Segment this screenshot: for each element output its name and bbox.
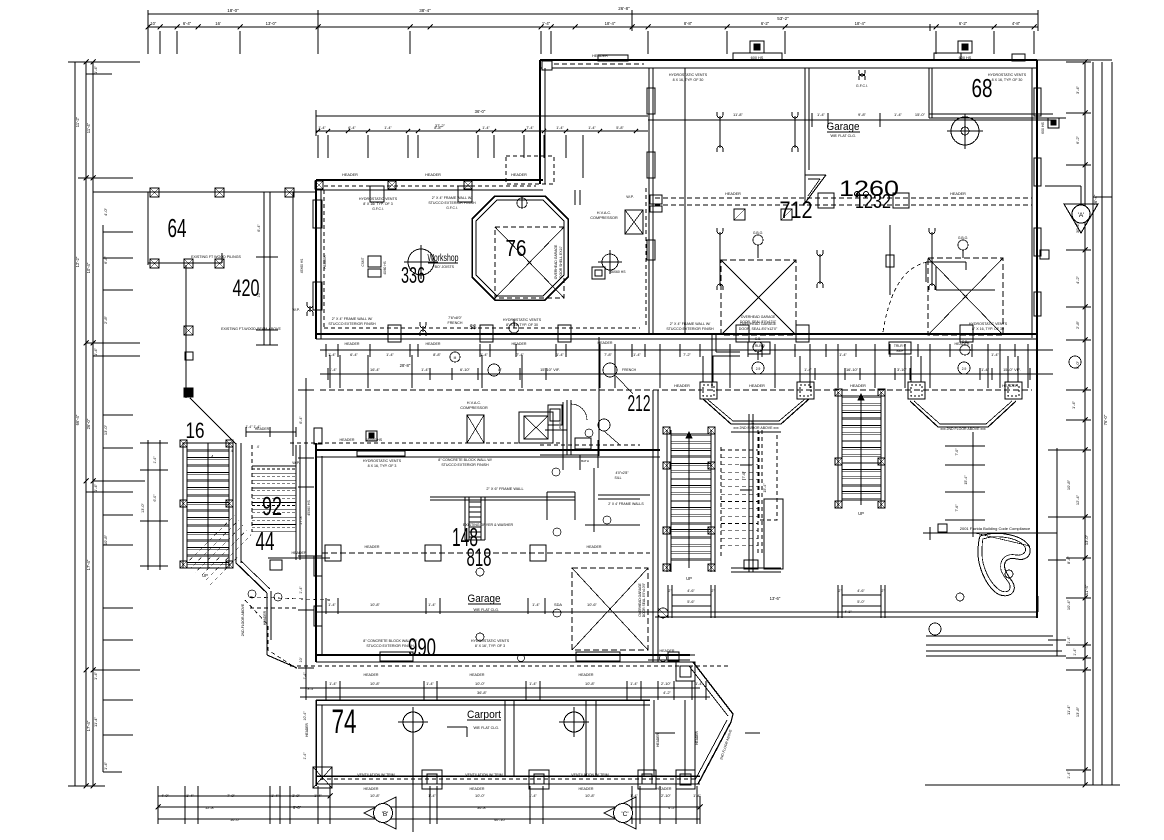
svg-text:6'-10": 6'-10" <box>460 367 471 372</box>
dimension line right vertical group <box>1084 62 1086 785</box>
bottom left end ticks <box>156 805 161 810</box>
center stair A treads <box>671 433 711 435</box>
svg-text:TRLR 9': TRLR 9' <box>753 344 766 348</box>
header dashed line corridor <box>320 389 1032 391</box>
svg-text:1'-4": 1'-4" <box>93 347 98 356</box>
dashed bay outline lower left <box>245 600 296 668</box>
svg-text:6'-4": 6'-4" <box>299 416 303 424</box>
svg-text:DOOR SHELL 8'X10': DOOR SHELL 8'X10' <box>559 246 563 278</box>
corridor circles <box>450 352 460 362</box>
svg-text:G.B.: G.B. <box>962 340 968 344</box>
svg-text:12'-2": 12'-2" <box>75 256 80 267</box>
corridor dim row 2 <box>320 373 1053 375</box>
svg-text:HEADER: HEADER <box>725 192 741 196</box>
octagon2 stem and dims <box>972 432 974 537</box>
carport column centerline <box>412 732 414 832</box>
svg-text:DOOR, SEAL 8'0"x12'0": DOOR, SEAL 8'0"x12'0" <box>740 320 777 324</box>
bath fixtures cluster <box>566 400 568 455</box>
svg-text:26'-0": 26'-0" <box>86 418 91 429</box>
svg-text:2001 Florida Building Code Co: 2001 Florida Building Code Compliance <box>960 526 1031 531</box>
svg-text:13'-0": 13'-0" <box>141 503 145 513</box>
svg-text:HYDROSTATIC VENTS: HYDROSTATIC VENTS <box>363 459 402 463</box>
left stair treads <box>187 449 229 451</box>
right stair C arrow <box>860 396 862 505</box>
svg-text:1'-4": 1'-4" <box>386 352 394 357</box>
svg-text:TRLR 9': TRLR 9' <box>894 344 907 348</box>
svg-text:76'-0": 76'-0" <box>1103 414 1108 425</box>
center stair B dashed <box>720 447 722 556</box>
svg-text:'BO' JOISTS: 'BO' JOISTS <box>434 265 455 269</box>
svg-text:17'-4": 17'-4" <box>86 720 91 731</box>
svg-text:2": 2" <box>882 589 885 593</box>
gbo octagon top <box>517 198 527 208</box>
extension drops workshop dims <box>317 135 319 158</box>
carport wall nubs <box>447 726 467 728</box>
gfci symbol <box>861 74 863 76</box>
svg-text:1'-4": 1'-4" <box>329 681 337 686</box>
garage west wall upper <box>542 61 552 70</box>
svg-text:1'-4": 1'-4" <box>153 456 157 464</box>
svg-text:Carport: Carport <box>467 709 501 721</box>
corridor ticks row 2 <box>327 368 329 380</box>
svg-text:4'-6": 4'-6" <box>687 589 695 593</box>
stair B landing <box>731 567 781 569</box>
svg-text:HEADER: HEADER <box>470 673 485 677</box>
svg-text:8' X 16', TYP. OF 3: 8' X 16', TYP. OF 3 <box>475 644 505 648</box>
middle stair 92 <box>252 465 296 467</box>
svg-text:2'-8": 2'-8" <box>103 315 108 324</box>
svg-text:64: 64 <box>168 213 187 243</box>
svg-text:1'-4": 1'-4" <box>1073 648 1077 656</box>
svg-text:HYDROSTATIC VENTS: HYDROSTATIC VENTS <box>359 197 398 201</box>
svg-text:HYDROSTATIC VENTS: HYDROSTATIC VENTS <box>503 318 542 322</box>
door circle entry <box>658 608 668 618</box>
svg-text:STUCCO EXTERIOR FINISH: STUCCO EXTERIOR FINISH <box>328 322 376 326</box>
svg-text:45X60 HS: 45X60 HS <box>307 500 311 516</box>
header post boxes corridor <box>700 382 717 399</box>
svg-text:10'-8": 10'-8" <box>370 681 381 686</box>
svg-text:3'-4": 3'-4" <box>1075 85 1080 94</box>
interior wall x806 with brace <box>804 68 806 175</box>
lower garage east wall <box>652 390 654 662</box>
beam dashed lines garage <box>655 197 1032 199</box>
left room walls near stairs <box>593 468 595 532</box>
detail box 45X60 <box>592 267 605 279</box>
svg-text:1'-4": 1'-4" <box>991 352 999 357</box>
south wall post boxes <box>388 325 401 342</box>
svg-text:2'-10": 2'-10" <box>661 681 672 686</box>
svg-text:1'-4": 1'-4" <box>328 352 336 357</box>
svg-text:12'-8": 12'-8" <box>205 805 216 810</box>
svg-text:FRENCH: FRENCH <box>448 321 463 325</box>
svg-text:44: 44 <box>256 526 275 556</box>
svg-text:36'-8": 36'-8" <box>477 805 488 810</box>
svg-text:W.P.: W.P. <box>292 461 300 465</box>
entry corner box <box>676 662 695 681</box>
svg-text:11'-2": 11'-2" <box>75 116 80 127</box>
svg-text:2" X 4" FRAME WALL W/: 2" X 4" FRAME WALL W/ <box>432 196 472 200</box>
right dim ticks <box>1066 61 1091 63</box>
svg-text:336: 336 <box>401 262 425 288</box>
svg-text:BM+: BM+ <box>755 349 762 353</box>
svg-text:HEADER: HEADER <box>660 649 675 653</box>
svg-text:7'-0": 7'-0" <box>742 471 746 479</box>
svg-text:G.B.O.: G.B.O. <box>753 231 763 235</box>
left dim ticks <box>68 61 140 63</box>
svg-text:COMPRESSOR: COMPRESSOR <box>460 406 488 410</box>
svg-text:1'-4": 1'-4" <box>482 126 490 130</box>
svg-text:1'-4": 1'-4" <box>93 671 98 680</box>
svg-text:1'-4": 1'-4" <box>421 367 429 372</box>
detail box 600HS top <box>750 41 764 53</box>
svg-text:HEADER: HEADER <box>345 342 360 346</box>
right wall window boxes <box>1034 88 1041 116</box>
svg-text:68: 68 <box>972 73 993 103</box>
center stair A arrow <box>688 436 690 568</box>
svg-text:11'-4": 11'-4" <box>86 122 91 133</box>
right stair C treads <box>842 395 881 397</box>
svg-text:6'-8": 6'-8" <box>103 255 108 264</box>
svg-text:1'-4": 1'-4" <box>328 602 336 607</box>
svg-text:4'-8": 4'-8" <box>1012 21 1021 26</box>
carport upper dim rows <box>300 687 700 689</box>
svg-text:6'-2": 6'-2" <box>959 21 968 26</box>
svg-text:HEADER: HEADER <box>364 673 379 677</box>
svg-text:2" X 4" FRAME WALL W/: 2" X 4" FRAME WALL W/ <box>332 317 372 321</box>
svg-text:HEADER: HEADER <box>512 342 527 346</box>
dim column x148 mid <box>147 440 149 570</box>
svg-text:4'-0": 4'-0" <box>161 793 169 798</box>
extension lines top <box>147 31 149 54</box>
svg-text:HEADER: HEADER <box>425 173 441 177</box>
svg-text:420: 420 <box>233 275 260 302</box>
column circle small <box>602 254 618 270</box>
svg-text:COMPRESSOR: COMPRESSOR <box>590 216 618 220</box>
svg-text:7'-8": 7'-8" <box>227 793 235 798</box>
svg-text:16': 16' <box>215 21 221 26</box>
pantry ladder <box>464 497 466 540</box>
workshop wall posts <box>315 181 323 189</box>
svg-text:10'-8": 10'-8" <box>370 602 381 607</box>
svg-text:UP: UP <box>858 511 864 516</box>
carport north wall <box>316 699 650 701</box>
svg-text:8'-5": 8'-5" <box>308 687 316 691</box>
svg-text:11'-4": 11'-4" <box>93 716 98 726</box>
svg-text:13'-0": 13'-0" <box>266 21 277 26</box>
svg-text:1'-4": 1'-4" <box>428 602 436 607</box>
svg-text:53'-2": 53'-2" <box>777 16 789 21</box>
svg-text:2" X 4" FRAME WALL W/: 2" X 4" FRAME WALL W/ <box>670 322 710 326</box>
svg-text:1'-4": 1'-4" <box>93 65 98 74</box>
small rooms details <box>562 402 564 470</box>
svg-text:'WB' FLAT CLG.: 'WB' FLAT CLG. <box>473 726 499 730</box>
lower garage north wall <box>316 449 660 451</box>
entry wall <box>648 654 695 656</box>
garage north wall <box>540 59 1037 61</box>
svg-text:8'-8": 8'-8" <box>684 21 693 26</box>
svg-text:5'-0": 5'-0" <box>857 600 865 604</box>
garage south wall / corridor wall <box>316 333 1037 335</box>
svg-text:40'-10": 40'-10" <box>494 817 507 822</box>
svg-text:OVERHEAD GARAGE: OVERHEAD GARAGE <box>554 244 558 279</box>
overhead door dashed X box <box>572 568 648 650</box>
svg-text:10'-8": 10'-8" <box>585 681 596 686</box>
section marker B <box>364 797 396 829</box>
dim column x264 <box>263 192 265 345</box>
line under code note <box>923 532 1057 534</box>
svg-text:HEADER: HEADER <box>365 545 380 549</box>
svg-text:7'-4": 7'-4" <box>526 126 534 130</box>
svg-text:6'-4": 6'-4" <box>183 21 192 26</box>
svg-text:38'-4": 38'-4" <box>419 8 431 13</box>
svg-text:STUCCO EXTERIOR FINISH: STUCCO EXTERIOR FINISH <box>441 463 489 467</box>
svg-text:6'-2": 6'-2" <box>1075 135 1080 144</box>
svg-text:3'-8": 3'-8" <box>292 793 300 798</box>
svg-text:'WB' FLAT CLG.: 'WB' FLAT CLG. <box>473 608 499 612</box>
svg-text:12'-4": 12'-4" <box>1075 494 1080 505</box>
svg-text:4'-1": 4'-1" <box>844 610 852 614</box>
svg-text:2ND-FLOOR-ABOVE: 2ND-FLOOR-ABOVE <box>241 603 245 636</box>
swoosh shape <box>978 533 1030 595</box>
carport south wall <box>316 775 700 777</box>
vertical pair center <box>748 414 750 572</box>
svg-text:HEADER: HEADER <box>292 551 307 555</box>
svg-text:1'-4": 1'-4" <box>93 483 98 492</box>
svg-text:HEADER: HEADER <box>950 192 966 196</box>
svg-text:15'-10" VIF.: 15'-10" VIF. <box>540 367 560 372</box>
svg-text:6'-4": 6'-4" <box>350 352 358 357</box>
workshop left wall window boxes <box>313 200 322 228</box>
svg-text:2' X 4' FRAME WALLS: 2' X 4' FRAME WALLS <box>608 502 644 506</box>
svg-text:DOOR, SEAL 8'0"x12'0": DOOR, SEAL 8'0"x12'0" <box>739 327 778 331</box>
svg-text:10': 10' <box>257 292 261 297</box>
svg-text:1'-4": 1'-4" <box>630 681 638 686</box>
garage east wall <box>1036 60 1038 618</box>
svg-text:11'-4": 11'-4" <box>1066 704 1071 714</box>
svg-text:16'-4": 16'-4" <box>370 367 381 372</box>
svg-text:6'-2": 6'-2" <box>761 21 770 26</box>
lower garage west wall <box>315 443 317 662</box>
gbo right <box>958 240 968 250</box>
wall below 64 <box>185 265 187 398</box>
svg-text:6'-4": 6'-4" <box>257 224 261 232</box>
svg-text:HEADER: HEADER <box>323 255 327 269</box>
svg-text:10': 10' <box>150 21 156 26</box>
svg-text:1'-4": 1'-4" <box>532 602 540 607</box>
svg-text:4'-2": 4'-2" <box>1075 275 1080 284</box>
header dashed lower garage <box>322 552 650 554</box>
bay wall down <box>266 593 268 655</box>
entry diagonal walls <box>693 662 733 714</box>
overhead door dashed box right <box>928 258 1003 335</box>
svg-text:'WB' FLAT CLG.: 'WB' FLAT CLG. <box>830 134 856 138</box>
svg-text:1'-4": 1'-4" <box>894 112 903 117</box>
svg-text:7'-8": 7'-8" <box>604 352 612 357</box>
svg-text:10'-8": 10'-8" <box>103 534 108 545</box>
center stair A posts <box>663 427 670 434</box>
workshop bay octagon <box>472 196 568 300</box>
section marker A triangle <box>1045 185 1081 187</box>
svg-text:4'-6": 4'-6" <box>857 589 865 593</box>
svg-text:712: 712 <box>780 197 813 224</box>
svg-text:1'-4": 1'-4" <box>299 586 303 594</box>
svg-text:HEADER: HEADER <box>511 173 527 177</box>
svg-text:Garage: Garage <box>468 593 501 605</box>
diag wall to stairs <box>190 398 236 444</box>
workshop north wall <box>316 179 543 181</box>
bay half octagon 1 <box>703 399 731 424</box>
svg-text:9'-8": 9'-8" <box>858 112 867 117</box>
long line y612 <box>316 611 1038 613</box>
svg-text:'B': 'B' <box>382 811 389 818</box>
detail box 600HS right <box>1048 118 1059 128</box>
csmt window marker <box>368 256 381 267</box>
svg-text:1'-4": 1'-4" <box>817 112 826 117</box>
svg-text:HEADER: HEADER <box>342 173 358 177</box>
svg-text:600 HS: 600 HS <box>1041 122 1045 134</box>
svg-text:4'-0": 4'-0" <box>103 207 108 216</box>
dimension line left vertical group <box>74 62 76 786</box>
svg-text:EXISTING FT WOOD PILINGS: EXISTING FT WOOD PILINGS <box>191 255 241 259</box>
svg-text:26'-8": 26'-8" <box>618 6 630 11</box>
svg-text:VENTILATION W/ TRIM: VENTILATION W/ TRIM <box>357 773 394 777</box>
carport interior walls <box>504 700 506 776</box>
svg-text:8 X 16, TYP. OF 3: 8 X 16, TYP. OF 3 <box>368 464 397 468</box>
svg-text:1'-4": 1'-4" <box>529 793 537 798</box>
svg-text:xxx 2ND FLOOR ABOVE xxx: xxx 2ND FLOOR ABOVE xxx <box>733 426 779 430</box>
svg-text:8" X 16, TYP. OF 30: 8" X 16, TYP. OF 30 <box>972 327 1004 331</box>
svg-text:HEADER: HEADER <box>695 731 699 745</box>
svg-text:18'-4": 18'-4" <box>855 21 866 26</box>
svg-text:4': 4' <box>257 445 260 449</box>
right stair C posts <box>835 389 842 396</box>
svg-text:15'-0": 15'-0" <box>915 112 926 117</box>
svg-text:M: M <box>454 356 457 360</box>
svg-text:H.V.A.C.: H.V.A.C. <box>597 211 611 215</box>
svg-text:HEADER: HEADER <box>656 733 660 747</box>
left stair posts <box>180 440 187 447</box>
svg-text:2'-10": 2'-10" <box>661 793 672 798</box>
svg-text:10'-8": 10'-8" <box>370 793 381 798</box>
svg-text:76: 76 <box>506 235 527 261</box>
workshop column symbol <box>408 249 434 275</box>
washer dryer <box>547 491 575 493</box>
svg-text:36'-8": 36'-8" <box>477 690 488 695</box>
svg-text:17'-3": 17'-3" <box>299 515 303 525</box>
svg-text:HEADER: HEADER <box>749 384 765 388</box>
svg-text:SILL: SILL <box>615 476 622 480</box>
svg-text:HEADER: HEADER <box>263 610 267 625</box>
svg-text:40/60 HS: 40/60 HS <box>383 261 387 274</box>
corridor dim ticks <box>325 344 327 357</box>
room 64 walls <box>147 192 149 265</box>
bottom right line <box>925 784 1120 786</box>
svg-text:8" CONCRETE BLOCK WALL W/: 8" CONCRETE BLOCK WALL W/ <box>438 458 492 462</box>
svg-text:10'-8": 10'-8" <box>585 793 596 798</box>
door swing arc <box>883 262 928 332</box>
dim line above workshop y131 <box>316 130 648 132</box>
svg-text:HEADER: HEADER <box>674 384 690 388</box>
gbo symbol <box>753 235 763 245</box>
svg-text:'C': 'C' <box>621 811 628 818</box>
svg-text:STUCCO EXTERIOR FINISH: STUCCO EXTERIOR FINISH <box>366 644 414 648</box>
svg-text:1'-4": 1'-4" <box>329 367 337 372</box>
framing symbols garage <box>719 116 721 148</box>
bay diag to carport <box>267 655 297 668</box>
svg-text:1'-4": 1'-4" <box>556 352 564 357</box>
svg-text:2-9: 2-9 <box>962 367 967 371</box>
svg-text:5'-6": 5'-6" <box>687 600 695 604</box>
bay half octagon 2 <box>910 401 938 427</box>
svg-text:2": 2" <box>669 589 672 593</box>
svg-text:HEADER: HEADER <box>340 438 355 442</box>
svg-text:1232: 1232 <box>855 191 891 213</box>
svg-text:212: 212 <box>628 390 651 416</box>
interior wall x685 <box>684 68 686 334</box>
wp fork symbol left <box>309 306 311 312</box>
svg-text:6'-0": 6'-0" <box>293 805 302 810</box>
svg-text:4'0"x2'8": 4'0"x2'8" <box>616 471 630 475</box>
svg-text:Garage: Garage <box>827 121 860 133</box>
dim column x1057 <box>1056 448 1058 656</box>
svg-text:4'-2": 4'-2" <box>663 690 671 695</box>
wp dim left <box>292 192 294 456</box>
svg-text:OVERHEAD GARAGE: OVERHEAD GARAGE <box>741 315 776 319</box>
svg-text:8" X 16, TYP. OF 30: 8" X 16, TYP. OF 30 <box>506 323 538 327</box>
svg-text:$$: $$ <box>470 325 477 331</box>
dashed rect west corner <box>506 156 554 184</box>
svg-text:UP: UP <box>686 576 692 581</box>
svg-text:8" CONCRETE BLOCK WALL W/: 8" CONCRETE BLOCK WALL W/ <box>363 639 417 643</box>
svg-text:2-9: 2-9 <box>756 367 761 371</box>
svg-text:7'-6": 7'-6" <box>955 504 959 512</box>
svg-text:8' X 16/ TYP. OF 3: 8' X 16/ TYP. OF 3 <box>363 202 393 206</box>
svg-text:2" X 6" FRAME WALL: 2" X 6" FRAME WALL <box>486 487 523 491</box>
svg-text:7'-0": 7'-0" <box>955 448 959 456</box>
dim line above workshop y116 <box>316 115 648 117</box>
svg-text:41'-4": 41'-4" <box>1084 584 1089 595</box>
svg-text:1'-4": 1'-4" <box>271 793 279 798</box>
svg-text:1'-4": 1'-4" <box>186 793 194 798</box>
left stair diagonal hatch <box>150 500 367 600</box>
section marker C <box>604 797 636 829</box>
svg-text:1'-4": 1'-4" <box>1067 771 1071 779</box>
svg-text:1'-4": 1'-4" <box>314 793 322 798</box>
svg-text:W.P.: W.P. <box>292 308 300 312</box>
left stair enclosure <box>183 442 233 444</box>
svg-text:'A': 'A' <box>1078 212 1085 219</box>
svg-text:Workshop: Workshop <box>428 253 459 264</box>
interior wall y497 <box>430 496 575 498</box>
svg-text:G.F.C.I.: G.F.C.I. <box>446 206 458 210</box>
svg-text:6'-0": 6'-0" <box>153 494 157 502</box>
svg-text:10'-0": 10'-0" <box>475 681 486 686</box>
svg-text:13'-0": 13'-0" <box>1084 534 1089 545</box>
bottom extension verticals <box>157 786 159 824</box>
svg-text:92: 92 <box>262 491 282 521</box>
svg-text:5'-8": 5'-8" <box>616 126 624 130</box>
svg-text:HEADER: HEADER <box>592 54 608 58</box>
svg-text:1'-4": 1'-4" <box>839 352 847 357</box>
room 68 south wall <box>929 113 1053 115</box>
svg-text:45X60 HS: 45X60 HS <box>300 259 304 274</box>
svg-text:VENTILATION W/ TRIM: VENTILATION W/ TRIM <box>571 773 608 777</box>
svg-text:xxx 2ND FLOOR ABOVE xxx: xxx 2ND FLOOR ABOVE xxx <box>940 427 986 431</box>
svg-text:17'-4": 17'-4" <box>86 559 91 570</box>
dashed lines to garage <box>250 597 330 600</box>
svg-text:3'-10": 3'-10" <box>897 367 908 372</box>
svg-text:HEADER: HEADER <box>470 787 485 791</box>
